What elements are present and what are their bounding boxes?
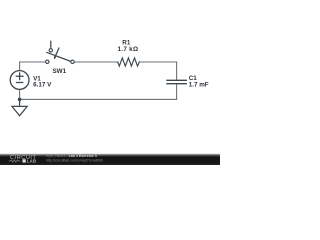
svg-text:LAB: LAB [27,159,37,164]
svg-text:6.17 V: 6.17 V [33,82,52,89]
svg-text:1.7 kΩ: 1.7 kΩ [117,46,138,53]
svg-text:1.7 mF: 1.7 mF [189,81,209,88]
svg-text:SW1: SW1 [52,68,66,75]
svg-text:http://circuitlab.com/c/4qd7cr: http://circuitlab.com/c/4qd7crna8th6 [46,158,103,162]
